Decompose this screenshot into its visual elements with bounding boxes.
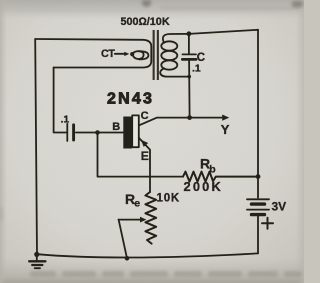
svg-text:CT: CT bbox=[101, 48, 115, 60]
resistor Re 10K zigzag (vertical rheostat) bbox=[145, 192, 156, 244]
svg-text:2N43: 2N43 bbox=[107, 91, 154, 108]
node: Rb / battery junction bbox=[256, 174, 261, 179]
svg-text:B: B bbox=[112, 121, 120, 133]
transformer T1 secondary winding bbox=[161, 41, 177, 50]
wire: secondary top lead bbox=[163, 34, 189, 43]
svg-text:E: E bbox=[141, 149, 149, 163]
svg-text:500Ω/10K: 500Ω/10K bbox=[121, 16, 170, 28]
transistor Q1 base bar (filled) bbox=[123, 117, 132, 149]
wire: primary lower lead down to coupling cap bbox=[54, 68, 67, 133]
page-top cut-off text artifacts bbox=[142, 0, 303, 9]
svg-text:3V: 3V bbox=[272, 200, 287, 214]
node: ground junction bbox=[34, 252, 39, 257]
wire: cap C1 bottom to collector node bbox=[188, 61, 191, 118]
capacitor C1 (.1 across secondary) lead bbox=[188, 34, 190, 53]
CT annotation arrow bbox=[115, 53, 125, 55]
transformer T1 centre-tap twist loop bbox=[132, 51, 143, 59]
transformer T1 primary inner loop bbox=[139, 51, 148, 59]
battery B1 plates bbox=[247, 198, 269, 200]
wire: base lead bbox=[76, 132, 123, 134]
svg-text:e: e bbox=[134, 198, 140, 210]
page-bottom blurred body text bbox=[0, 207, 302, 283]
node: base junction bbox=[95, 130, 100, 135]
resistor Rb 200K zigzag bbox=[183, 172, 258, 182]
ground symbol bbox=[36, 254, 38, 260]
transformer T1 core bbox=[153, 30, 155, 80]
transistor Q1 collector lead bbox=[139, 118, 225, 126]
svg-text:.1: .1 bbox=[192, 63, 201, 75]
output arrow Y bbox=[222, 115, 229, 121]
node: collector junction bbox=[187, 115, 192, 120]
svg-text:b: b bbox=[209, 163, 215, 175]
svg-text:200K: 200K bbox=[184, 179, 223, 194]
node: wiper bottom junction bbox=[125, 256, 130, 261]
wire: bottom rail bbox=[37, 253, 258, 257]
wire: base bias run down and right to Rb bbox=[98, 133, 184, 177]
capacitor C1 plates bbox=[182, 53, 196, 55]
wire: secondary bottom lead bbox=[160, 68, 189, 76]
wire: top rail to right rail corner bbox=[189, 30, 258, 34]
emitter arrowhead (PNP, pointing to bar) bbox=[141, 140, 148, 147]
wire: battery bottom lead bbox=[257, 216, 259, 253]
wire: left rail (primary top lead to ground) bbox=[35, 39, 37, 254]
svg-text:.1: .1 bbox=[61, 113, 70, 125]
svg-text:C: C bbox=[141, 110, 149, 122]
svg-text:Y: Y bbox=[221, 122, 230, 137]
Re wiper arrow bbox=[119, 219, 142, 221]
transistor Q1 body (outlined) bbox=[132, 115, 139, 147]
wire: wiper to bottom rail bbox=[119, 220, 127, 259]
node: cap C1 top junction bbox=[187, 31, 192, 36]
svg-text:10K: 10K bbox=[157, 193, 181, 205]
transistor Q1 emitter lead bbox=[139, 138, 150, 192]
transformer T1 primary outer loop bbox=[35, 39, 151, 68]
wire: right rail bbox=[257, 30, 259, 198]
capacitor C2 (.1 coupling) plates bbox=[66, 124, 68, 141]
node CT (centre-tap dot) bbox=[130, 52, 134, 56]
battery plus sign bbox=[262, 222, 273, 224]
node: secondary bottom junction bbox=[187, 75, 191, 79]
